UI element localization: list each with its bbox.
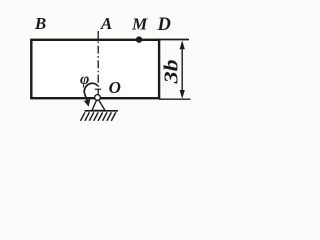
axis line (vertical dash-dot through A and O) [97, 31, 99, 94]
pivot triangle support [92, 98, 105, 110]
ground hatching [81, 112, 116, 121]
svg-text:M: M [131, 14, 148, 33]
svg-text:D: D [157, 15, 171, 35]
svg-text:3b: 3b [161, 59, 182, 85]
svg-text:A: A [100, 14, 112, 33]
bar BD (rectangular plate outline) [31, 40, 159, 98]
point M dot [136, 36, 142, 42]
rotation arrowhead [84, 99, 91, 106]
svg-text:φ: φ [80, 71, 89, 88]
dimension arrowhead top [180, 40, 185, 49]
ground line [85, 110, 119, 112]
dimension arrowhead bottom [180, 90, 185, 99]
dimension line 3b [181, 43, 183, 96]
pin circle at O [95, 95, 101, 101]
rotation arrow (phi arc) [84, 83, 97, 100]
horizontal center tick at pivot [95, 88, 101, 90]
top extension line [159, 39, 189, 41]
bottom extension line [159, 98, 191, 100]
svg-text:O: O [109, 78, 121, 97]
svg-text:B: B [34, 14, 46, 33]
